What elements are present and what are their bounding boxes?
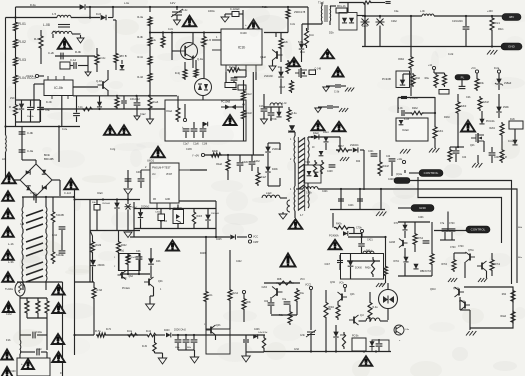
label D-07 (494, 67, 500, 70)
wire x253 (252, 72, 254, 155)
junction (162, 31, 164, 33)
wire (270, 107, 272, 112)
wire (107, 70, 109, 80)
wire x150 top (149, 7, 151, 12)
transistor Q4c (338, 292, 348, 302)
pwm pin Vcc (152, 174, 157, 176)
t44 (430, 289, 436, 291)
svg-text:VFCP: VFCP (166, 174, 173, 176)
label R0B (277, 279, 282, 281)
svg-text:C2b2: C2b2 (391, 20, 397, 23)
small box bottom right (372, 340, 389, 352)
T400 primary top (293, 136, 296, 163)
wire (116, 200, 118, 204)
svg-text:CONTROL: CONTROL (424, 171, 439, 175)
junction (149, 31, 151, 33)
capacitor C04 (463, 27, 470, 29)
wire x62 (61, 96, 63, 127)
svg-text:R1v2: R1v2 (246, 93, 252, 96)
wire (39, 109, 41, 122)
wire (87, 56, 89, 72)
wire (336, 149, 340, 151)
svg-text:R6d: R6d (502, 294, 507, 296)
svg-text:C2b: C2b (462, 157, 467, 159)
svg-text:Q7b1: Q7b1 (468, 250, 474, 252)
transistor Q0d (349, 315, 359, 325)
t45 (10, 371, 16, 373)
wire (270, 297, 272, 302)
svg-text:R0a4: R0a4 (166, 110, 172, 113)
ground hatch d3b (478, 278, 487, 282)
svg-text:PC10kB: PC10kB (221, 101, 231, 104)
t11 (394, 10, 399, 13)
svg-text:R0a0: R0a0 (501, 316, 507, 318)
wire (149, 112, 151, 119)
resistor R-01 (14, 21, 18, 32)
capacitor C0b0 box (94, 205, 100, 211)
svg-text:R42b: R42b (365, 268, 371, 270)
wire (227, 172, 229, 180)
wire top bus1 b (86, 6, 308, 8)
wire sec bus y189 (296, 188, 303, 190)
terminal CMP (248, 240, 251, 243)
label C-30 (334, 91, 340, 94)
label R-40 (229, 66, 235, 69)
wire (76, 96, 78, 113)
wire y276 (398, 275, 432, 277)
label U6D1 (147, 159, 155, 163)
wire (379, 150, 381, 160)
wire (245, 335, 247, 339)
wire (75, 281, 95, 283)
wire (15, 117, 17, 127)
label R4d6 (212, 150, 218, 153)
wire (99, 108, 101, 109)
wire (330, 5, 336, 7)
wire (325, 290, 327, 300)
resistor R09b (153, 341, 156, 353)
junction (227, 154, 229, 156)
wire (349, 233, 362, 235)
warning triangle (52, 285, 65, 295)
warning triangle W14 (333, 122, 346, 132)
wire x364 low (363, 165, 365, 190)
wire (272, 60, 274, 66)
diode 2SD416 (353, 147, 358, 152)
label T400 (288, 129, 295, 133)
svg-text:TH10a: TH10a (5, 287, 13, 291)
svg-text:R2bb: R2bb (490, 128, 496, 130)
resistor R42w (371, 257, 374, 277)
ground arrow (279, 214, 287, 219)
resistor R-36 (161, 35, 165, 48)
label C700b (450, 247, 456, 249)
wire aux x90 (89, 200, 91, 283)
wire (76, 117, 78, 123)
wire (498, 73, 500, 79)
resistor R-04 (14, 74, 18, 85)
svg-text:R21d: R21d (233, 293, 239, 295)
pwm pin GND (165, 199, 170, 201)
wire (205, 321, 207, 330)
svg-text:+: + (21, 362, 23, 366)
wire (155, 352, 163, 354)
wire (19, 282, 21, 283)
T400 core hatch (298, 137, 304, 211)
wire (37, 298, 39, 299)
wire (486, 271, 488, 278)
junction (380, 188, 382, 190)
wire (301, 50, 303, 62)
warning triangle L232 (2, 227, 14, 237)
label Q250 (470, 145, 475, 147)
label R1v2 (246, 93, 252, 96)
wire y352b (246, 351, 264, 353)
transistor E10B (399, 239, 408, 248)
resistor R0d1 (126, 255, 129, 263)
capacitor C700 (449, 229, 456, 231)
choke core hatch 2 (26, 262, 43, 282)
diode PC100A (479, 119, 484, 124)
wire (387, 309, 389, 321)
transistor Q-0e small circle (394, 325, 404, 335)
label GND2 (396, 178, 402, 181)
wire (325, 320, 327, 352)
label R012 (398, 58, 404, 61)
svg-text:R-0c: R-0c (100, 56, 107, 60)
wire (15, 67, 17, 74)
wire choke left3 (22, 255, 24, 259)
resistor R214 (228, 288, 232, 302)
resistor R760 (452, 258, 456, 272)
capacitor C4x (376, 344, 383, 346)
capacitor C441 (357, 199, 363, 201)
wire (37, 315, 39, 318)
inductor L-02 (5, 135, 8, 152)
wire (279, 143, 281, 150)
label C-06 (27, 131, 34, 135)
label 2 (145, 166, 147, 169)
warning triangle W3 (118, 125, 130, 135)
wire y261 (347, 260, 380, 262)
label 2SB79 (504, 82, 512, 85)
svg-text:D40b: D40b (272, 168, 278, 171)
svg-text:R-3d: R-3d (137, 75, 143, 79)
warning triangle W2 (104, 125, 116, 135)
connector GND3 (411, 205, 434, 212)
label 2SD0d5 (211, 213, 220, 215)
svg-text:R0b2: R0b2 (398, 58, 404, 61)
svg-text:C-0e: C-0e (62, 128, 68, 131)
wire (483, 141, 485, 152)
wire (138, 253, 140, 256)
label Q6d3 (129, 276, 134, 278)
resistor R-03 (14, 56, 18, 67)
t48 (236, 261, 242, 263)
wire pwm pin1 (179, 200, 216, 202)
t35 (418, 217, 424, 219)
warning triangle W15 (289, 219, 303, 229)
label R0a4 (166, 110, 172, 113)
svg-text:MBF/C7b0: MBF/C7b0 (420, 271, 432, 273)
wire (361, 247, 363, 254)
label pin4 (290, 189, 292, 191)
wire y335 d (228, 334, 265, 336)
label R0d1 (131, 257, 137, 259)
resistor R4c (336, 303, 340, 320)
svg-text:PC/0b: PC/0b (352, 336, 359, 338)
wire y107c (264, 106, 283, 108)
svg-text:L-08: L-08 (43, 23, 50, 27)
svg-text:L-0c: L-0c (282, 102, 287, 105)
label F10b (6, 338, 11, 342)
ground hatch ic200 (429, 148, 439, 153)
wire choke left2 (22, 229, 24, 233)
wire (433, 70, 435, 74)
pwm pins (141, 170, 190, 210)
wire (289, 305, 291, 310)
wire control T2 (418, 177, 502, 243)
wire bus x62 (62, 282, 64, 376)
capacitor C20t (385, 2, 390, 4)
wire (96, 48, 98, 53)
label pin1 (290, 139, 292, 141)
svg-text:C1b: C1b (20, 224, 25, 226)
label VCC1 (26, 74, 34, 78)
svg-text:C0a: C0a (282, 299, 287, 301)
svg-text:C4b: C4b (136, 250, 141, 253)
diode 10uA (203, 122, 207, 126)
wire (403, 73, 411, 75)
svg-text:IC1b: IC1b (238, 45, 246, 49)
transistor Q010 (455, 287, 465, 297)
wire (150, 248, 152, 259)
label C1d6 (193, 143, 199, 146)
wire (202, 132, 204, 138)
capacitor C4b0 (136, 257, 143, 259)
wire pwm right (190, 169, 207, 171)
capacitor C203 (402, 110, 404, 116)
wire (202, 96, 204, 101)
svg-text:C1d6: C1d6 (193, 143, 199, 146)
terminal t1 (183, 118, 186, 121)
wire (193, 343, 195, 350)
svg-text:C7b0: C7b0 (458, 246, 464, 248)
svg-text:2SD0d5: 2SD0d5 (102, 203, 111, 205)
junction (434, 112, 436, 114)
wire (59, 180, 61, 196)
label D4b0 (164, 330, 170, 332)
wire (121, 60, 123, 64)
wire (308, 136, 340, 138)
label C70a (440, 223, 445, 225)
wire (193, 122, 195, 128)
junction (116, 95, 118, 97)
resistor R04r (411, 73, 415, 87)
wire (239, 155, 241, 162)
junction (58, 125, 60, 127)
wire y240 (440, 239, 455, 241)
warning triangle W8 (224, 115, 237, 125)
wire (115, 20, 117, 52)
svg-text:D4b0: D4b0 (164, 330, 170, 332)
wire (26, 315, 28, 318)
svg-text:R0c1: R0c1 (495, 22, 501, 25)
wire choke right (45, 197, 47, 207)
svg-text:D2b5: D2b5 (362, 25, 368, 28)
wire (185, 343, 187, 350)
wire (34, 83, 44, 85)
ground arrow 12v (174, 20, 181, 25)
svg-text:C/4d: C/4d (294, 349, 300, 351)
label 12V (170, 1, 175, 5)
resistor R-31 (148, 36, 152, 47)
wire left col (15, 18, 17, 22)
wire (321, 21, 323, 24)
box around Q4b0 (206, 329, 230, 354)
svg-text:R-7b: R-7b (106, 329, 112, 331)
wire (123, 96, 125, 100)
t14 (498, 28, 504, 31)
resistor R3d (262, 336, 265, 350)
svg-text:R-0b: R-0b (75, 50, 82, 54)
svg-text:R7bd: R7bd (418, 238, 424, 240)
label C1b2 (6, 313, 12, 316)
T400 aux winding (287, 200, 290, 212)
label 2SD158 (264, 75, 273, 78)
label R-08 (75, 50, 82, 54)
mosfet Q-0m (295, 68, 307, 78)
wire drop 360 (359, 189, 361, 210)
capacitor C-1b box (60, 62, 70, 69)
label R0a r (518, 257, 523, 259)
t7 (200, 41, 206, 44)
label GND (121, 277, 127, 280)
svg-text:VCC1: VCC1 (305, 284, 312, 287)
wire (229, 316, 231, 329)
choke winding L11b (45, 233, 48, 255)
warning triangle W1 (58, 38, 72, 49)
label R09b (142, 346, 148, 348)
label 4-7 (300, 215, 304, 217)
box MCL-15 (336, 8, 347, 13)
inductor L400 (262, 195, 280, 198)
pwm pin VFCP (166, 174, 173, 176)
label 5C400 (355, 268, 362, 270)
ground arrow (269, 66, 276, 71)
label R-09 (100, 56, 107, 60)
variable capacitor C-0x (171, 9, 183, 17)
label 1 (216, 36, 218, 39)
wire (202, 122, 204, 128)
ground arrow aux top (124, 189, 132, 195)
warning triangle (52, 334, 65, 344)
diode D408 (265, 167, 270, 172)
connector 48V (502, 14, 521, 21)
label L400 (266, 192, 272, 195)
label R-10b (146, 331, 152, 333)
wire (329, 21, 331, 25)
resistor R70d (413, 232, 417, 246)
resistor R-0c2 (305, 28, 309, 48)
svg-text:Q-0b: Q-0b (293, 63, 299, 65)
zener D-03 (19, 104, 24, 109)
junction (148, 95, 150, 97)
svg-text:C4b7: C4b7 (325, 264, 331, 266)
pwm text (152, 167, 171, 170)
t24 (356, 161, 361, 163)
label PC10kB (221, 101, 231, 104)
label R22s (280, 87, 286, 89)
wire (460, 309, 470, 311)
capacitor C4d2 (243, 340, 249, 342)
wire (387, 283, 389, 290)
label R4d2 (121, 245, 127, 247)
wire (33, 84, 35, 109)
opto arrow (176, 214, 181, 223)
wire top bus 2 b (71, 17, 100, 19)
svg-text:1000u: 1000u (208, 10, 215, 13)
thermistor TH10a (15, 282, 25, 296)
label E10B (389, 242, 395, 244)
svg-text:TA10B: TA10B (56, 213, 64, 217)
capacitor C0d (268, 303, 275, 305)
wire x276 (275, 33, 277, 38)
capacitor C-0f (121, 101, 127, 103)
wire ac v x22 (21, 127, 23, 161)
wire top bus 2 c (108, 17, 113, 19)
svg-text:C-0g: C-0g (110, 148, 116, 151)
junction (45, 196, 47, 198)
wire (357, 15, 365, 17)
wire (414, 222, 416, 232)
capacitor C-0z box (238, 85, 246, 90)
svg-text:C-14B: C-14B (315, 69, 322, 71)
junction (149, 6, 151, 8)
wire (279, 178, 281, 186)
wire (46, 352, 48, 358)
label Z0b (102, 203, 111, 205)
resistor R6d4 (511, 289, 515, 303)
warning triangle L277 (2, 272, 14, 282)
wire (459, 297, 461, 310)
junction (363, 350, 365, 352)
zener 2SD0b2 (138, 212, 143, 217)
resistor R-07b (127, 333, 138, 337)
resistor R426 (320, 160, 323, 174)
capacitor C-0g (125, 179, 132, 181)
svg-text:L4a0: L4a0 (266, 192, 272, 195)
svg-text:R0c1: R0c1 (498, 28, 504, 31)
wire to bridge (6, 179, 21, 181)
wire (153, 287, 155, 296)
wire (398, 207, 411, 209)
wire (52, 197, 54, 210)
resistor R10c (36, 299, 40, 315)
resistor R1v2 (242, 90, 246, 101)
wire (361, 234, 363, 238)
warning triangle W7 (247, 20, 261, 31)
label C0a9 (97, 193, 103, 195)
svg-text:+1bs: +1bs (397, 158, 403, 161)
wire (234, 76, 246, 78)
capacitor C-30 (335, 85, 341, 87)
svg-text:C-6b: C-6b (30, 191, 36, 195)
junction (193, 334, 195, 336)
capacitor C428 (329, 165, 336, 167)
resistor R1d2 (242, 109, 246, 120)
wire (41, 351, 47, 353)
